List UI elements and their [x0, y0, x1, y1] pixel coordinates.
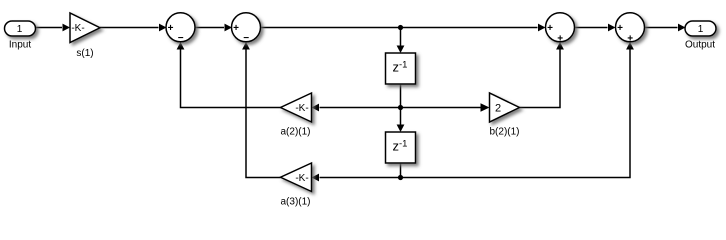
svg-text:2: 2 [495, 103, 501, 115]
wire: middle junction to gain a(2)(1) input [312, 104, 401, 112]
sum Add3 (+ +) [546, 13, 575, 45]
delay block z^-1 (second) [386, 132, 416, 163]
svg-text:-K-: -K- [71, 23, 84, 34]
wire: gain s(1) to sum Add1 [100, 24, 167, 32]
wire: sum Add4 to output port [645, 24, 686, 32]
wire: input port to gain s(1) [36, 24, 71, 32]
wire: gain a(3)(1) output to sum Add2 minus input [242, 42, 280, 178]
junction: node at top of delay chain [398, 25, 403, 30]
wire: middle junction to gain b(2)(1) input [401, 103, 490, 111]
svg-text:+: + [168, 23, 174, 34]
output port 1 (Output) [685, 21, 716, 51]
svg-text:+: + [547, 23, 553, 34]
junction: bottom node [398, 175, 403, 180]
wire: bottom junction to sum Add4 plus input [401, 42, 634, 178]
svg-text:b(2)(1): b(2)(1) [489, 127, 519, 138]
wire: delay1 bottom through middle junction to delay z-1 (second) [397, 85, 405, 133]
sum Add4 (+ +) [616, 13, 645, 45]
svg-text:+: + [627, 33, 633, 44]
sum Add2 (+ -) [232, 13, 261, 44]
svg-text:Input: Input [9, 40, 31, 51]
svg-text:Output: Output [685, 40, 715, 51]
wire: bottom junction to gain a(3)(1) input [312, 174, 401, 182]
svg-text:+: + [557, 33, 563, 44]
svg-text:-K-: -K- [295, 103, 308, 114]
gain s(1) [70, 13, 100, 59]
svg-text:1: 1 [17, 24, 23, 35]
gain a(3)(1) [280, 163, 311, 208]
svg-text:s(1): s(1) [76, 48, 93, 59]
svg-text:−: − [243, 33, 249, 44]
svg-text:+: + [617, 23, 623, 34]
input port 1 (Input) [5, 21, 36, 51]
junction: middle node between delays [398, 105, 403, 110]
wire: gain a(2)(1) output to sum Add1 minus input [177, 42, 281, 108]
delay block z^-1 (first) [386, 53, 416, 84]
wire: sum Add3 to sum Add4 [575, 24, 616, 32]
wire: delay2 bottom to bottom junction [400, 163, 402, 178]
svg-text:a(2)(1): a(2)(1) [280, 127, 310, 138]
svg-text:-K-: -K- [295, 173, 308, 184]
svg-text:+: + [233, 23, 239, 34]
svg-text:−: − [178, 33, 184, 44]
gain b(2)(1) [489, 93, 519, 138]
svg-text:1: 1 [698, 24, 704, 35]
sum Add1 (+ -) [166, 13, 195, 44]
wire: gain b(2)(1) output to sum Add3 plus input [520, 42, 564, 108]
wire: junction down to delay z-1 (first) [397, 28, 405, 54]
gain a(2)(1) [280, 93, 311, 138]
wire: sum Add2 to sum Add3 [261, 24, 546, 32]
svg-text:a(3)(1): a(3)(1) [280, 197, 310, 208]
wire: sum Add1 to sum Add2 [195, 24, 232, 32]
